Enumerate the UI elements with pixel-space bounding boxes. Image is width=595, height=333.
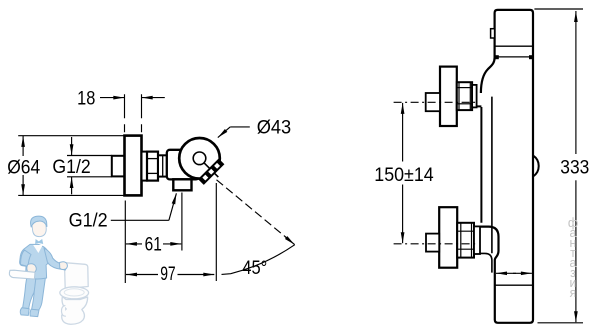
plumber back leg [23, 276, 37, 309]
shoe right [30, 309, 39, 316]
svg-text:97: 97 [160, 264, 176, 285]
knob inner circle [193, 152, 206, 165]
svg-text:150±14: 150±14 [374, 165, 434, 186]
svg-text:18: 18 [77, 88, 95, 109]
body outline (bar, top section, bottom section) [480, 10, 533, 323]
dimension Ø64 bottom line [18, 194, 124, 196]
inner width arrow line left [496, 272, 516, 274]
toilet tank [64, 263, 88, 289]
extension line 97 right [215, 183, 217, 281]
upper union washer [472, 85, 477, 108]
dimension G1/2 top line [67, 155, 112, 157]
control knob circle [179, 138, 220, 179]
dimension 333 line bottom + arrow [575, 308, 577, 322]
extension line 18 left (dashed) [124, 94, 126, 134]
leader G1/2 outlet horizontal [111, 219, 169, 221]
upper union flange [440, 67, 457, 126]
dimension Ø64 arrow up [22, 136, 24, 156]
dimension 61 line right + arrow [163, 243, 181, 245]
dimension 18 line right + arrow [142, 97, 165, 99]
lower union pipe stub [426, 234, 439, 252]
333 extension line bottom [538, 322, 584, 324]
svg-text:Ø64: Ø64 [7, 157, 40, 178]
plumber head face [32, 218, 47, 237]
adapter piece [158, 155, 168, 176]
spout band at 45° [198, 158, 224, 184]
dimension Ø64 top line [18, 135, 124, 137]
hand on tank [60, 262, 68, 270]
extension line left (61/97) [124, 201, 126, 284]
upper union pipe stub [426, 93, 440, 111]
extension line 61 right [181, 193, 183, 251]
toilet seat rim [60, 287, 89, 299]
svg-text:G1/2: G1/2 [69, 210, 108, 231]
dimension G1/2 arrow up (below) [71, 177, 73, 194]
union nut facet bottom [147, 172, 158, 174]
svg-text:61: 61 [145, 235, 162, 256]
left forearm [21, 250, 32, 267]
upper union nut [457, 82, 472, 110]
dimension 97 line left + arrow [126, 274, 158, 276]
neck and bow tie [35, 239, 43, 244]
body inner edge lines [480, 97, 492, 273]
dimension 150±14 line top + arrow [402, 103, 404, 115]
dimension Ø64 arrow down [22, 175, 24, 195]
leader Ø43 horizontal [230, 126, 250, 128]
dimension G1/2 arrow down (above) [71, 137, 73, 155]
band line lower [495, 56, 533, 58]
45° dashed line arrowhead [285, 237, 295, 245]
knob bump on right edge [533, 156, 539, 177]
svg-text:Ø43: Ø43 [257, 117, 292, 138]
extension line 18 right (dashed) [141, 94, 143, 134]
upper nut facet lines [457, 87, 472, 89]
union nut [147, 152, 158, 181]
lower union flange [439, 207, 457, 268]
lower centerline [394, 243, 478, 245]
45° dashed swing line [217, 180, 289, 239]
plumber front leg [32, 277, 46, 310]
leader Ø43 arrow [218, 127, 230, 138]
pipe left edge between unions [477, 106, 481, 222]
union nut facet top [147, 158, 158, 160]
wrench [9, 270, 35, 279]
union ring [142, 152, 148, 181]
svg-text:333: 333 [560, 157, 589, 178]
toilet pedestal [62, 297, 88, 325]
dimension G1/2 bottom line [67, 176, 112, 178]
outlet fitting (bottom) [173, 179, 191, 190]
shirt V [33, 245, 43, 253]
knob pointer line [204, 163, 218, 177]
shoe left [20, 308, 29, 316]
valve body (left view) [167, 150, 199, 180]
333 extension line top [534, 8, 583, 10]
svg-text:G1/2: G1/2 [52, 157, 90, 178]
right arm to tank [44, 248, 66, 270]
lower union washer [474, 226, 480, 254]
dimension 18 line left + arrow [100, 97, 124, 99]
svg-text:45°: 45° [242, 258, 267, 279]
45° swing arc [222, 245, 295, 275]
band end mark left [495, 55, 499, 59]
leader G1/2 outlet arrow [169, 193, 177, 220]
wall pipe stub (left view) [112, 156, 125, 177]
plumber hair [31, 216, 47, 227]
lower union nut [457, 223, 474, 258]
dimension 61 line left + arrow [126, 243, 142, 245]
adapter inner line [162, 155, 164, 176]
upper centerline [394, 101, 478, 103]
band end mark right [529, 55, 533, 59]
svg-text:фантазия: фантазия [568, 216, 578, 300]
wall flange (left view) [125, 136, 142, 196]
fist [27, 264, 36, 274]
dimension 150±14 line bottom + arrow [402, 231, 404, 243]
band line upper [495, 45, 533, 47]
clip tab on left edge [491, 29, 495, 38]
inner width arrow line right [513, 272, 532, 274]
lower nut facet lines [457, 230, 474, 232]
plumber torso jacket [20, 244, 50, 279]
dimension 97 line right + arrow [178, 274, 215, 276]
dimension 333 line top + arrow [575, 11, 577, 25]
inner line in bottom section [495, 284, 533, 286]
pedestal left bump [61, 306, 65, 317]
